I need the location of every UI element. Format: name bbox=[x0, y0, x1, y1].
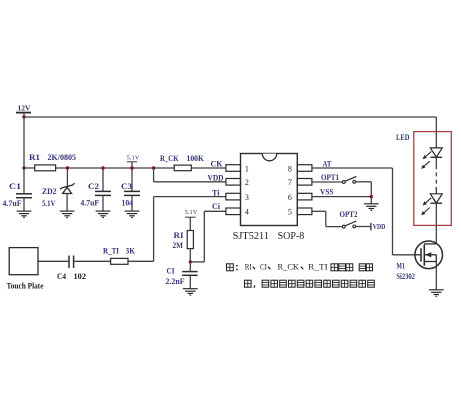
node VSS junction bbox=[370, 195, 373, 198]
label RI bbox=[174, 230, 185, 240]
label C1 bbox=[9, 181, 21, 191]
node C3 junction bbox=[130, 166, 133, 169]
power flag 12V bbox=[16, 103, 31, 117]
wire C4 to R_TI bbox=[74, 260, 111, 262]
svg-text:VSS: VSS bbox=[320, 187, 334, 197]
label ZD2 bbox=[42, 186, 57, 196]
wire OPT2 right bbox=[356, 226, 371, 228]
value 5.1V ZD2 bbox=[42, 198, 56, 208]
svg-text:C3: C3 bbox=[121, 181, 132, 191]
svg-text:R1: R1 bbox=[29, 152, 40, 162]
pin stub 6 bbox=[297, 193, 312, 200]
label C3 bbox=[121, 181, 132, 191]
svg-text:OPT1: OPT1 bbox=[321, 172, 339, 182]
resistor R_TI bbox=[111, 258, 128, 264]
svg-text:2M: 2M bbox=[173, 240, 184, 250]
node VDD branch junction bbox=[152, 166, 155, 169]
power flag 5.1V rail bbox=[127, 154, 140, 168]
wire VSS bbox=[312, 196, 371, 198]
op-amp U1 SJT5211 body bbox=[241, 154, 298, 226]
svg-text:LED: LED bbox=[396, 132, 410, 142]
switch OPT2 bbox=[342, 221, 356, 228]
wire rail to LED1 bbox=[435, 117, 437, 148]
svg-text:2K/0805: 2K/0805 bbox=[48, 152, 77, 162]
value 4.7uF C1 bbox=[3, 198, 22, 208]
ground M1 bbox=[429, 290, 444, 296]
value 102 bbox=[74, 271, 87, 281]
wire plate to C4 bbox=[38, 260, 69, 262]
pin stub 5 bbox=[297, 208, 312, 215]
M1 body lead arrow bbox=[424, 252, 436, 257]
svg-text:VDD: VDD bbox=[208, 173, 224, 183]
value 2M bbox=[173, 240, 184, 250]
label CI bbox=[167, 266, 176, 276]
net label OPT2 bbox=[340, 209, 358, 219]
pin stub 1 bbox=[226, 165, 241, 172]
ground VSS bbox=[364, 204, 379, 210]
svg-text:5: 5 bbox=[288, 208, 292, 217]
svg-text:RI: RI bbox=[245, 263, 252, 272]
net label AT bbox=[323, 158, 332, 168]
value 100K bbox=[187, 153, 205, 163]
wire LED1 to dashes bbox=[435, 157, 437, 165]
power flag 5.1V RI bbox=[185, 209, 198, 230]
node R1 input junction bbox=[22, 166, 25, 169]
zener ZD2 bbox=[60, 168, 75, 211]
net label CK bbox=[211, 158, 223, 168]
svg-text:AT: AT bbox=[323, 158, 332, 168]
ground CI bbox=[183, 289, 198, 295]
ground C2 bbox=[96, 211, 111, 217]
label M1 bbox=[396, 260, 405, 270]
svg-text:7: 7 bbox=[288, 178, 292, 187]
wire dashes to LED2 bbox=[435, 189, 437, 194]
note line1 cjk bbox=[227, 264, 373, 271]
pin stub 8 bbox=[297, 165, 312, 172]
ground C3 bbox=[125, 211, 140, 217]
svg-text:Ci: Ci bbox=[212, 201, 221, 211]
M1 gate bar bbox=[420, 248, 422, 261]
wire CK to pin1 bbox=[191, 167, 226, 169]
capacitor C3 bbox=[124, 168, 140, 211]
net label VSS bbox=[320, 187, 334, 197]
resistor R_CK bbox=[174, 165, 191, 171]
svg-text:104: 104 bbox=[122, 198, 134, 208]
svg-text:OPT2: OPT2 bbox=[340, 209, 358, 219]
svg-text:CI: CI bbox=[167, 266, 176, 276]
wire Ci to pin4 bbox=[190, 211, 226, 262]
LED D2 bbox=[430, 194, 442, 203]
wire OPT1 right bbox=[356, 182, 372, 197]
svg-text:R_CK: R_CK bbox=[160, 153, 179, 163]
pin stub 3 bbox=[226, 193, 241, 200]
svg-text:4.7uF: 4.7uF bbox=[3, 198, 22, 208]
M1 channel bar bbox=[423, 244, 425, 265]
svg-text:4.7uF: 4.7uF bbox=[81, 198, 100, 208]
svg-text:CI: CI bbox=[260, 263, 267, 272]
note line2 cjk bbox=[245, 280, 375, 288]
pin number 8 bbox=[288, 164, 292, 173]
svg-text:C4: C4 bbox=[57, 271, 67, 281]
wire RI to node bbox=[189, 249, 191, 262]
pin number 1 bbox=[245, 164, 249, 173]
label R_CK bbox=[160, 153, 179, 163]
svg-text:12V: 12V bbox=[18, 103, 32, 112]
resistor RI bbox=[187, 231, 193, 249]
capacitor C1 bbox=[16, 168, 32, 211]
label C2 bbox=[88, 181, 99, 191]
node ZD2 junction bbox=[66, 166, 69, 169]
LED D2 arrows bbox=[421, 198, 431, 215]
capacitor CI bbox=[182, 262, 197, 289]
svg-text:1: 1 bbox=[245, 164, 249, 173]
svg-text:Si2302: Si2302 bbox=[396, 271, 415, 281]
wire AT bbox=[312, 168, 421, 255]
svg-text:6: 6 bbox=[288, 193, 292, 202]
capacitor C2 bbox=[95, 168, 111, 211]
wire VSS to ground bbox=[370, 197, 372, 204]
label LED bbox=[396, 132, 410, 142]
wire OPT1 left bbox=[312, 181, 342, 183]
svg-text:VDD: VDD bbox=[373, 223, 386, 231]
svg-text:3: 3 bbox=[245, 193, 249, 202]
value 2K/0805 bbox=[48, 152, 77, 162]
net label Ti bbox=[212, 188, 220, 198]
pin stub 2 bbox=[226, 179, 241, 186]
pin stub 4 bbox=[226, 208, 241, 215]
pin number 5 bbox=[288, 208, 292, 217]
pin number 4 bbox=[245, 208, 249, 217]
svg-text:8: 8 bbox=[288, 164, 292, 173]
node 12V rail junction bbox=[22, 115, 25, 118]
svg-text:4: 4 bbox=[245, 208, 249, 217]
LED D1 arrows bbox=[421, 152, 431, 169]
svg-text:SJT5211: SJT5211 bbox=[233, 231, 269, 242]
capacitor C4 bbox=[69, 256, 74, 268]
net label Ci bbox=[212, 201, 221, 211]
svg-text:C2: C2 bbox=[88, 181, 99, 191]
value 3K bbox=[126, 245, 136, 255]
svg-text:5.1V: 5.1V bbox=[42, 198, 56, 208]
label C4 bbox=[57, 271, 67, 281]
svg-text:R_TI: R_TI bbox=[103, 245, 120, 255]
value 2.2nF bbox=[166, 276, 185, 286]
svg-text:Ti: Ti bbox=[212, 188, 220, 198]
svg-text:M1: M1 bbox=[396, 260, 405, 270]
wire Ti to pin3 bbox=[128, 197, 226, 262]
svg-text:100K: 100K bbox=[187, 153, 205, 163]
svg-text:2.2nF: 2.2nF bbox=[166, 276, 185, 286]
M1 drain lead bbox=[424, 243, 436, 245]
wire LED2 to M1 drain bbox=[435, 203, 437, 244]
transistor M1 body bbox=[415, 241, 443, 269]
label R_TI bbox=[103, 245, 120, 255]
net label VDD bbox=[208, 173, 224, 183]
svg-text:C1: C1 bbox=[9, 181, 21, 191]
power flag VDD OPT2 bbox=[371, 223, 385, 231]
value 4.7uF C2 bbox=[81, 198, 100, 208]
pin number 3 bbox=[245, 193, 249, 202]
ground ZD2 bbox=[60, 211, 75, 217]
LED D1 bbox=[430, 148, 442, 157]
wire VDD branch bbox=[154, 168, 226, 182]
touch plate bbox=[9, 248, 38, 275]
wire top 12V rail bbox=[24, 116, 436, 118]
label R1 bbox=[29, 152, 40, 162]
svg-text:SOP-8: SOP-8 bbox=[278, 231, 305, 242]
LED group box bbox=[414, 132, 452, 226]
svg-text:RI: RI bbox=[174, 230, 185, 240]
node RI CI junction bbox=[189, 260, 192, 263]
pin number 2 bbox=[245, 178, 249, 187]
node C2 junction bbox=[101, 166, 104, 169]
value Si2302 bbox=[396, 271, 415, 281]
M1 source lead bbox=[424, 255, 436, 262]
pin number 7 bbox=[288, 178, 292, 187]
label SJT5211 bbox=[233, 231, 269, 242]
svg-text:5.1V: 5.1V bbox=[185, 209, 198, 216]
wire M1 source to ground bbox=[435, 262, 437, 290]
resistor R1 bbox=[35, 165, 56, 171]
wire dashed LED string bbox=[435, 165, 437, 190]
net label OPT1 bbox=[321, 172, 339, 182]
wire 5.1V rail bbox=[56, 167, 175, 169]
label Touch Plate bbox=[7, 282, 44, 291]
label SOP-8 bbox=[278, 231, 305, 242]
svg-text:Touch Plate: Touch Plate bbox=[7, 282, 44, 291]
svg-text:102: 102 bbox=[74, 271, 87, 281]
ground C1 bbox=[17, 211, 32, 217]
value 104 C3 bbox=[122, 198, 134, 208]
svg-text:3K: 3K bbox=[126, 245, 136, 255]
svg-text:R_TI: R_TI bbox=[308, 263, 328, 272]
svg-text:R_CK: R_CK bbox=[278, 263, 300, 272]
svg-text:2: 2 bbox=[245, 178, 249, 187]
note line1 latin bbox=[245, 263, 328, 272]
pin number 6 bbox=[288, 193, 292, 202]
wire to R1 bbox=[24, 167, 35, 169]
svg-text:CK: CK bbox=[211, 158, 223, 168]
wire 12V vertical drop bbox=[23, 117, 25, 168]
svg-text:5.1V: 5.1V bbox=[127, 154, 140, 161]
wire OPT2 left bbox=[312, 211, 342, 226]
svg-text:ZD2: ZD2 bbox=[42, 186, 57, 196]
switch OPT1 bbox=[342, 176, 356, 183]
pin stub 7 bbox=[297, 179, 312, 186]
